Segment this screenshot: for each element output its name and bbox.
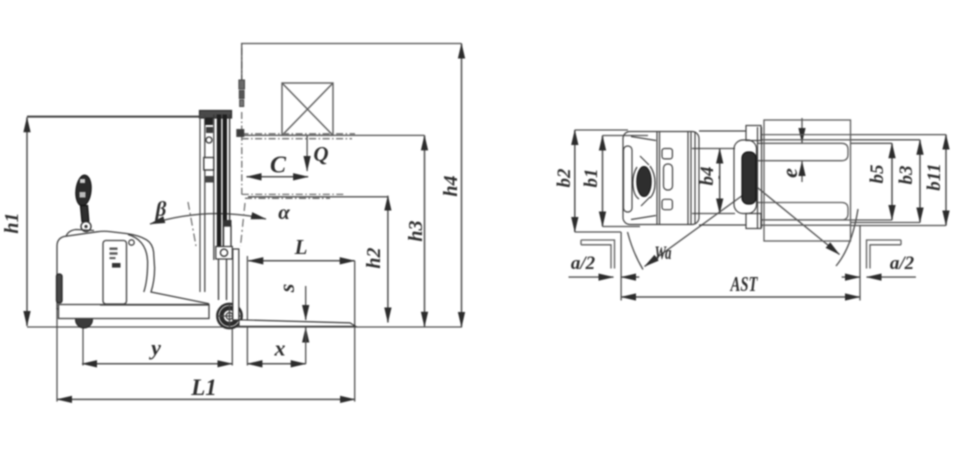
svg-text:α: α <box>278 200 290 224</box>
svg-text:h1: h1 <box>1 212 23 233</box>
svg-text:Wa: Wa <box>655 243 672 264</box>
svg-text:-: - <box>711 175 725 179</box>
svg-text:b11: b11 <box>924 163 945 190</box>
svg-text:Q: Q <box>313 142 328 166</box>
svg-text:L1: L1 <box>190 375 217 400</box>
svg-text:e: e <box>777 168 802 178</box>
svg-text:b3: b3 <box>896 166 917 185</box>
svg-text:β: β <box>155 197 167 221</box>
svg-text:x: x <box>274 336 286 361</box>
svg-text:C: C <box>270 153 287 179</box>
svg-text:y: y <box>148 335 161 360</box>
svg-text:AST: AST <box>729 272 758 296</box>
svg-text:s: s <box>274 284 299 294</box>
svg-text:a/2: a/2 <box>890 253 915 274</box>
svg-text:h2: h2 <box>363 247 385 268</box>
svg-text:L: L <box>294 235 308 259</box>
svg-text:h4: h4 <box>440 175 462 196</box>
svg-text:b2: b2 <box>554 168 575 188</box>
svg-text:a/2: a/2 <box>571 253 596 274</box>
svg-text:b1: b1 <box>581 169 602 188</box>
svg-text:h3: h3 <box>405 220 427 241</box>
svg-text:b5: b5 <box>867 164 888 184</box>
